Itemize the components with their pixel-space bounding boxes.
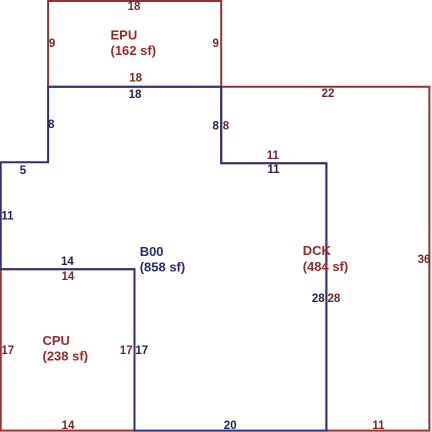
svg-text:20: 20 xyxy=(224,420,237,432)
svg-text:(484 sf): (484 sf) xyxy=(303,259,349,274)
svg-text:17: 17 xyxy=(1,345,14,357)
svg-text:EPU: EPU xyxy=(111,28,138,43)
svg-text:22: 22 xyxy=(322,88,335,100)
svg-text:18: 18 xyxy=(129,89,142,101)
CPU area outline (red rectangle) xyxy=(1,269,135,430)
svg-text:36: 36 xyxy=(418,254,431,266)
svg-text:11: 11 xyxy=(267,150,280,162)
svg-text:18: 18 xyxy=(129,73,142,85)
svg-text:8: 8 xyxy=(48,119,55,131)
svg-text:B00: B00 xyxy=(140,244,164,259)
svg-text:(162 sf): (162 sf) xyxy=(111,43,157,58)
svg-text:CPU: CPU xyxy=(43,333,70,348)
svg-text:(858 sf): (858 sf) xyxy=(140,260,186,275)
svg-text:17: 17 xyxy=(120,345,133,357)
svg-text:11: 11 xyxy=(1,211,14,223)
svg-text:8: 8 xyxy=(212,120,219,132)
svg-text:5: 5 xyxy=(20,165,27,177)
svg-text:28: 28 xyxy=(312,293,325,305)
svg-text:9: 9 xyxy=(49,38,55,50)
DCK area outline (red polygon) xyxy=(221,87,429,431)
svg-text:14: 14 xyxy=(62,271,75,283)
svg-text:11: 11 xyxy=(372,420,385,432)
svg-text:18: 18 xyxy=(128,1,141,13)
svg-text:14: 14 xyxy=(62,420,75,432)
svg-text:8: 8 xyxy=(223,120,230,132)
B00 area outline (blue polygon, drawn on top) xyxy=(1,87,327,431)
svg-text:DCK: DCK xyxy=(303,243,332,258)
svg-text:11: 11 xyxy=(267,164,280,176)
svg-text:(238 sf): (238 sf) xyxy=(43,348,89,363)
svg-text:14: 14 xyxy=(61,256,74,268)
EPU area outline (red rectangle) xyxy=(48,1,221,87)
svg-text:17: 17 xyxy=(135,345,148,357)
svg-text:28: 28 xyxy=(328,293,341,305)
svg-text:9: 9 xyxy=(212,38,218,50)
